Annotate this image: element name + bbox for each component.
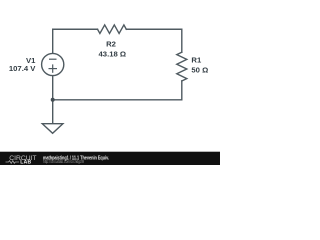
svg-text:http://circuitlab.com/c/cn6gzl: http://circuitlab.com/c/cn6gzl9 <box>43 159 84 164</box>
V1 plus sign <box>49 64 58 72</box>
svg-text:43.18 Ω: 43.18 Ω <box>99 49 127 58</box>
resistor R1 zigzag <box>177 52 187 81</box>
svg-text:R2: R2 <box>106 39 116 48</box>
V1 minus sign <box>49 58 57 60</box>
wire: R1 bottom down, across bottom to junction <box>53 81 182 100</box>
footer banner <box>0 152 220 165</box>
wire: V1 top up and across to R2 left lead <box>53 29 98 53</box>
junction node <box>51 98 55 102</box>
ground <box>42 124 63 134</box>
CircuitLab logo: waveform trace <box>6 161 20 164</box>
svg-text:R1: R1 <box>191 56 202 65</box>
voltage source V1 <box>42 53 64 75</box>
svg-text:50 Ω: 50 Ω <box>191 65 208 74</box>
wire: V1 bottom to junction to ground <box>52 75 54 123</box>
wire: R2 right lead to top-right corner and down to R1 top <box>126 29 182 52</box>
svg-text:107.4 V: 107.4 V <box>9 64 36 73</box>
resistor R2 zigzag <box>98 25 127 34</box>
svg-text:LAB: LAB <box>20 160 31 165</box>
